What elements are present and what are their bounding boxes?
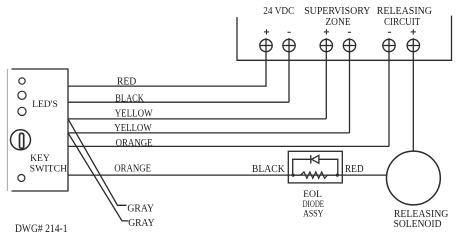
svg-text:RED: RED (117, 77, 136, 88)
svg-text:DWG# 214-1: DWG# 214-1 (15, 221, 68, 235)
svg-text:BLACK: BLACK (252, 163, 285, 175)
svg-text:YELLOW: YELLOW (115, 108, 153, 119)
svg-text:BLACK: BLACK (115, 93, 144, 104)
svg-text:ORANGE: ORANGE (116, 138, 153, 149)
svg-text:YELLOW: YELLOW (114, 123, 152, 134)
svg-text:RELEASING: RELEASING (377, 6, 433, 17)
svg-text:EOL: EOL (303, 190, 322, 200)
svg-text:CIRCUIT: CIRCUIT (384, 17, 421, 28)
svg-text:GRAY: GRAY (127, 204, 154, 215)
svg-text:ZONE: ZONE (325, 17, 350, 28)
svg-text:LED'S: LED'S (32, 100, 58, 110)
svg-text:KEY: KEY (30, 154, 50, 164)
svg-text:GRAY: GRAY (128, 218, 154, 229)
svg-text:SOLENOID: SOLENOID (394, 219, 442, 230)
svg-text:ORANGE: ORANGE (114, 164, 151, 175)
svg-text:SWITCH: SWITCH (30, 164, 68, 174)
svg-text:SUPERVISORY: SUPERVISORY (304, 6, 371, 17)
svg-text:24 VDC: 24 VDC (263, 6, 294, 17)
svg-text:RED: RED (345, 163, 364, 175)
svg-text:ASSY: ASSY (303, 210, 323, 220)
svg-text:DIODE: DIODE (303, 200, 325, 210)
